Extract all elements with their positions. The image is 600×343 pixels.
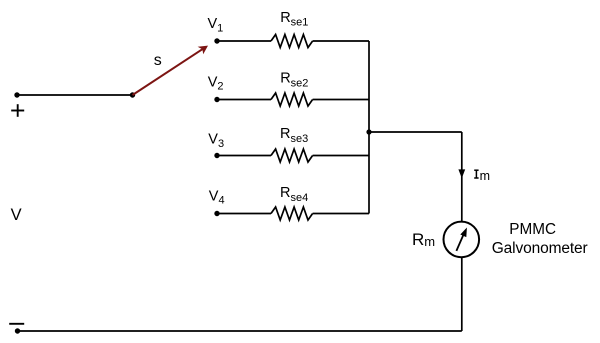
- wire: bottom return: [18, 330, 462, 332]
- wire: Rse1 to bus: [313, 40, 369, 42]
- wire: V1 lead to resistor: [217, 40, 271, 42]
- wire: right vertical bus: [368, 41, 370, 214]
- wire: Rse4 to bus: [313, 213, 369, 215]
- node: bus output junction dot: [366, 129, 371, 134]
- wire: V2 lead to resistor: [217, 99, 271, 101]
- node: + input terminal dot: [14, 92, 19, 97]
- resistor Rse4: [271, 207, 313, 220]
- wire: junction to meter branch (horizontal): [369, 131, 462, 133]
- node: - output terminal dot: [15, 328, 20, 333]
- node V3 terminal dot: [214, 153, 219, 158]
- node V4 terminal dot: [214, 211, 219, 216]
- wire: V3 lead to resistor: [217, 155, 271, 157]
- node V2 terminal dot: [214, 97, 219, 102]
- resistor Rse1: [271, 35, 313, 48]
- plus polarity symbol: [11, 104, 24, 117]
- wire: Rse3 to bus: [313, 155, 369, 157]
- wire: Rse2 to bus: [313, 99, 369, 101]
- svg-text:PMMC: PMMC: [509, 221, 556, 238]
- current direction arrow Im: [458, 169, 465, 178]
- galvanometer meter circle: [444, 222, 480, 258]
- switch S (selector arrow): [133, 46, 209, 95]
- svg-text:V: V: [11, 206, 22, 224]
- svg-text:m: m: [480, 169, 490, 183]
- node: switch pole dot: [130, 92, 135, 97]
- label Im: [474, 170, 478, 178]
- node V1 terminal dot: [214, 38, 219, 43]
- wire: top-left input lead: [17, 94, 133, 96]
- galvanometer needle: [456, 228, 467, 251]
- svg-text:s: s: [154, 52, 162, 69]
- svg-text:Galvonometer: Galvonometer: [492, 240, 588, 257]
- minus polarity symbol: [9, 323, 24, 325]
- resistor Rse3: [271, 149, 313, 162]
- wire: meter branch vertical (top): [461, 132, 463, 221]
- wire: V4 lead to resistor: [217, 213, 271, 215]
- wire: meter branch vertical (bottom): [461, 258, 463, 331]
- resistor Rse2: [271, 93, 313, 106]
